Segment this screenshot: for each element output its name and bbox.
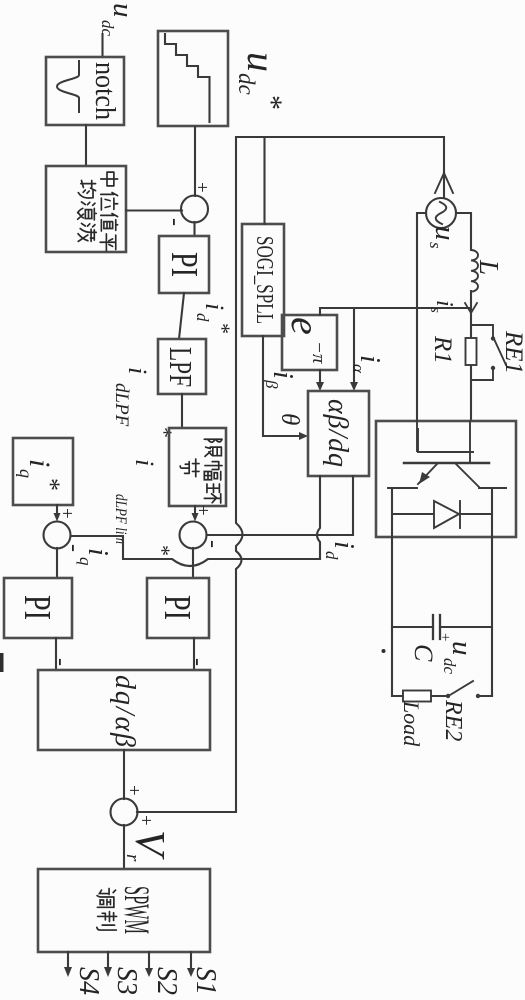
wire i_s sense vertical (320, 308, 471, 315)
wire sum2 to PI2 (192, 548, 194, 578)
SOGI_SPLL box (242, 224, 284, 336)
svg-text:αβ/dq: αβ/dq (322, 399, 353, 467)
LPF box (158, 339, 206, 394)
svg-text:R1: R1 (429, 335, 456, 364)
svg-text:β: β (262, 379, 281, 389)
svg-text:i: i (123, 367, 152, 374)
wire i_alpha with arrow (349, 308, 385, 391)
wire us top rail to rectifier (456, 213, 471, 421)
PI controller U-PI3 (4, 578, 72, 638)
load branch with RE2 and Load (392, 681, 492, 741)
node V_r label (122, 830, 172, 862)
svg-text:i: i (200, 303, 229, 310)
svg-text:i: i (267, 371, 298, 379)
capacitor C (392, 615, 492, 662)
IGBT emitter with arrow (388, 464, 437, 488)
wire B i_q feedback with hops (71, 476, 320, 566)
svg-text:*: * (150, 545, 175, 556)
limiter box (Chinese) (169, 428, 226, 506)
wire DC bottom rail (391, 488, 393, 696)
svg-text:+: + (192, 505, 213, 516)
svg-text:+: + (135, 815, 156, 826)
svg-text:i: i (354, 355, 385, 363)
svg-text:i: i (23, 459, 56, 467)
wire trunk us to SOGI input (263, 137, 265, 224)
svg-text:+: + (191, 182, 212, 193)
IGBT collector (456, 464, 506, 488)
svg-text:dLPF: dLPF (111, 383, 132, 427)
dq/alphabeta transform box (38, 670, 210, 750)
wire feedforward us to sum4 with hops (137, 137, 444, 812)
svg-text:notch: notch (89, 62, 120, 120)
AC source us (426, 198, 461, 249)
freewheel diode (392, 501, 492, 528)
wire udc input (101, 34, 103, 57)
svg-text:*: * (255, 95, 288, 110)
junction dot (382, 649, 386, 653)
wire dq box to sum4 (123, 750, 125, 799)
svg-text:+: + (123, 785, 144, 796)
wire LPF to limiter (181, 394, 183, 428)
wire DC top rail (491, 488, 493, 696)
wire notch to median filter (85, 125, 87, 166)
i_s current arrow (427, 300, 477, 313)
svg-text:PI: PI (163, 252, 205, 277)
wire iq* to sum3 with arrow (54, 505, 61, 522)
output arrow S1 (187, 952, 221, 995)
node i_dLPF label (111, 367, 177, 438)
wire PI1 to LPF with label i_d* (179, 293, 184, 339)
svg-text:dq/αβ: dq/αβ (109, 675, 140, 747)
summing junction sum1 (162, 182, 212, 226)
alphabeta/dq transform box (308, 391, 369, 476)
svg-text:u: u (239, 52, 284, 72)
svg-text:i: i (82, 548, 113, 556)
svg-text:-: - (48, 658, 74, 666)
svg-text:-: - (200, 540, 226, 548)
SPWM modulation box (Chinese) (38, 869, 210, 952)
svg-text:LPF: LPF (163, 347, 199, 387)
svg-text:dc: dc (234, 73, 259, 95)
svg-text:r: r (122, 854, 143, 862)
svg-text:q: q (16, 469, 36, 478)
output arrow S4 (64, 952, 104, 995)
svg-text:dc: dc (440, 658, 459, 675)
output arrow S3 (104, 952, 142, 995)
wire filter to sum1 (126, 209, 182, 211)
svg-text:RE1: RE1 (500, 330, 525, 374)
svg-text:-: - (162, 218, 188, 226)
inductor L (471, 250, 504, 292)
i_q* reference box (13, 438, 73, 505)
svg-text:S4: S4 (73, 967, 104, 995)
svg-text:*: * (210, 323, 235, 334)
svg-text:s: s (426, 242, 445, 249)
svg-text:s: s (427, 307, 443, 313)
svg-text:d: d (322, 551, 341, 560)
svg-text:L: L (474, 259, 504, 275)
load resistor (399, 691, 431, 748)
svg-text:*: * (36, 478, 65, 491)
IGBT gate leads (417, 421, 473, 463)
wire theta from SOGI to ab/dq box (263, 336, 308, 440)
node udc input label (98, 3, 139, 37)
svg-text:-: - (185, 658, 211, 666)
svg-text:−π: −π (308, 341, 329, 364)
svg-text:i: i (328, 541, 359, 549)
u_dc* reference label (234, 52, 288, 110)
wire sum1 to PI1 (193, 222, 195, 236)
wire sum3 to PI3 (56, 548, 58, 578)
svg-text:α: α (349, 364, 368, 374)
svg-text:PI: PI (16, 595, 58, 620)
wire sum4 to SPWM with label V_r (123, 825, 125, 869)
svg-text:+: + (56, 508, 77, 519)
svg-text:u: u (429, 226, 461, 241)
summing junction sum4 (111, 785, 157, 826)
scan artifact blob (0, 653, 4, 672)
u_dc* staircase reference box (158, 31, 228, 126)
summing junction sum2 (180, 505, 227, 549)
svg-text:PI: PI (156, 595, 198, 620)
svg-text:i: i (130, 459, 159, 466)
arrow us voltage direction (435, 173, 453, 193)
svg-text:RE2: RE2 (440, 699, 466, 741)
svg-text:θ: θ (276, 413, 303, 425)
PI controller U-PI1 (159, 236, 209, 293)
svg-text:C: C (409, 644, 438, 662)
wire us bottom rail to rectifier (417, 213, 426, 421)
svg-text:d: d (193, 313, 212, 322)
svg-text:u: u (107, 3, 139, 18)
wire PI3 to dq/ab box with minus (48, 638, 74, 670)
svg-text:Load: Load (399, 700, 424, 747)
svg-text:dc: dc (98, 20, 117, 37)
svg-text:e: e (283, 317, 328, 335)
node i_dLPFlim label (112, 459, 175, 556)
notch filter box (46, 57, 124, 125)
IGBT bar (404, 462, 489, 465)
node u_dc bus label (440, 641, 478, 675)
PI controller U-PI2 (147, 578, 209, 638)
svg-text:S1: S1 (190, 967, 221, 995)
wire staircase to sum1 (194, 127, 196, 196)
output arrow S2 (145, 952, 182, 995)
wire PI2 to dq/ab box with minus (185, 638, 211, 670)
resistor R1 (429, 335, 477, 365)
e^-jpi delay box (282, 315, 337, 370)
svg-text:u: u (446, 641, 478, 656)
summing junction sum3 (44, 508, 88, 552)
node i_d* label (193, 303, 235, 334)
svg-text:i: i (431, 300, 457, 307)
svg-text:S2: S2 (151, 967, 182, 995)
relay switch RE1 (471, 325, 525, 380)
median average filter box (Chinese) (46, 166, 126, 252)
wire A i_d feedback (207, 476, 359, 560)
rectifier bridge box (376, 421, 516, 537)
svg-text:SPWM: SPWM (117, 886, 157, 934)
svg-text:q: q (76, 557, 95, 566)
wire i_beta with arrow (262, 370, 324, 391)
svg-text:S3: S3 (111, 967, 142, 995)
svg-text:SOGI_SPLL: SOGI_SPLL (251, 236, 277, 324)
wire limiter to sum2 with arrow (192, 506, 199, 522)
